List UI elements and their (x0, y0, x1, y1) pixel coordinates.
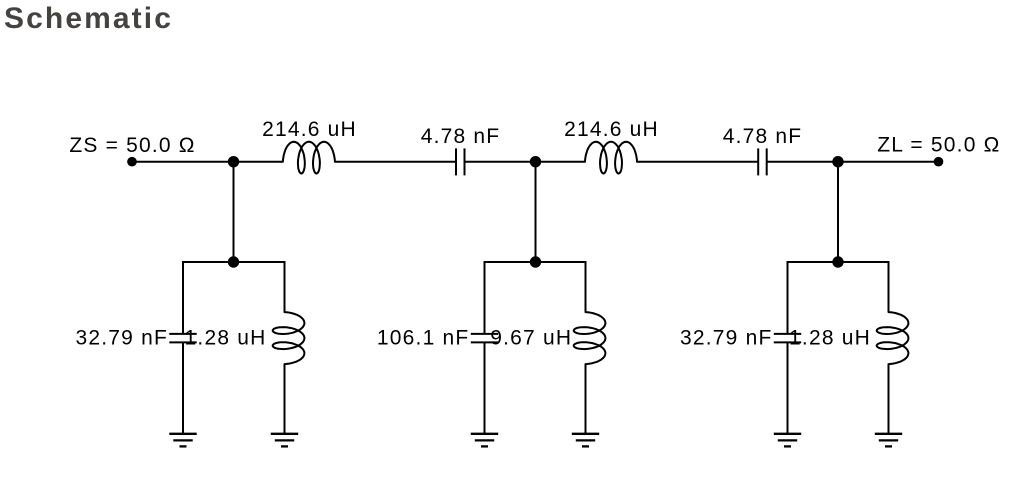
svg-text:32.79 nF: 32.79 nF (680, 326, 773, 349)
wire: L2 to C2 (637, 161, 758, 163)
capacitor C1 4.78 nF (456, 148, 465, 175)
svg-text:ZL = 50.0 Ω: ZL = 50.0 Ω (877, 133, 1000, 156)
wire: L4 to ground (585, 364, 587, 434)
wire: C2 to ZL terminal (767, 161, 939, 163)
wire: shunt 1 bar (183, 262, 285, 334)
ground G3 (471, 434, 498, 447)
svg-text:1.28 uH: 1.28 uH (789, 326, 871, 349)
svg-text:9.67 uH: 9.67 uH (490, 326, 572, 349)
svg-text:1.28 uH: 1.28 uH (185, 326, 267, 349)
inductor L1 214.6 uH (283, 142, 335, 174)
node dot A2 (228, 256, 239, 267)
wire: C1 to L2 (465, 161, 586, 163)
svg-text:ZS = 50.0 Ω: ZS = 50.0 Ω (69, 134, 195, 157)
node dot B (530, 156, 541, 167)
svg-text:106.1 nF: 106.1 nF (377, 326, 470, 349)
capacitor C2 4.78 nF (758, 148, 767, 175)
wire: L3 to ground (284, 364, 286, 434)
capacitor C3 32.79 nF plates (169, 334, 196, 343)
terminal dot ZL (934, 157, 944, 167)
wire: shunt 3 bar (788, 262, 889, 334)
capacitor C5 32.79 nF plates (774, 334, 801, 343)
terminal dot ZS (127, 157, 137, 167)
ground G2 (271, 434, 298, 447)
wire: C4 to ground (484, 342, 486, 433)
ground G1 (169, 434, 196, 447)
ground G6 (875, 434, 902, 447)
wire: shunt 2 bar (485, 262, 586, 334)
node dot C (832, 156, 843, 167)
svg-text:4.78 nF: 4.78 nF (723, 125, 803, 148)
ground G5 (774, 434, 801, 447)
wire: shunt 3 drop (837, 162, 839, 262)
wire: shunt 1 drop (233, 162, 235, 262)
wire: C5 to ground (787, 342, 789, 433)
wire: L1 to C1 (335, 161, 456, 163)
inductor L2 214.6 uH (585, 142, 637, 174)
svg-text:32.79 nF: 32.79 nF (76, 326, 169, 349)
svg-text:214.6 uH: 214.6 uH (262, 118, 357, 141)
wire: C3 to ground (182, 342, 184, 433)
svg-text:4.78 nF: 4.78 nF (421, 125, 501, 148)
capacitor C4 106.1 nF plates (471, 334, 498, 343)
node dot B2 (530, 256, 541, 267)
ground G4 (572, 434, 599, 447)
title heading (4, 2, 173, 36)
inductor L5 1.28 uH (877, 312, 909, 364)
node dot C2 (832, 256, 843, 267)
inductor L4 9.67 uH (574, 312, 606, 364)
wire: shunt 2 drop (535, 162, 537, 262)
wire: main line ZS terminal to L1 (132, 161, 283, 163)
node dot A (228, 156, 239, 167)
inductor L3 1.28 uH (273, 312, 305, 364)
wire: L5 to ground (888, 364, 890, 434)
svg-text:214.6 uH: 214.6 uH (564, 118, 659, 141)
